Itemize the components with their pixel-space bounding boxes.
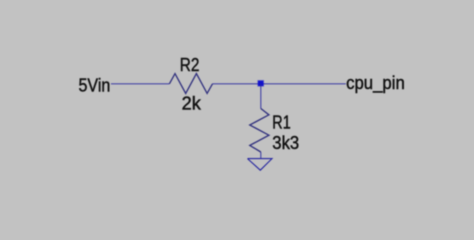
- svg-text:R1: R1: [272, 113, 290, 133]
- svg-text:3k3: 3k3: [272, 133, 299, 153]
- svg-text:5Vin: 5Vin: [79, 76, 111, 96]
- node junction: [258, 81, 263, 86]
- wire: junction down to R1: [260, 84, 262, 109]
- svg-text:2k: 2k: [182, 93, 202, 113]
- svg-text:cpu_pin: cpu_pin: [346, 73, 405, 94]
- resistor R2: [169, 74, 212, 94]
- wire: 5Vin to R2 left lead: [111, 83, 169, 85]
- resistor R1: [250, 109, 269, 153]
- svg-text:R2: R2: [180, 55, 200, 75]
- ground: [248, 159, 273, 171]
- wire: R2 right lead to cpu_pin: [213, 83, 346, 85]
- wire: R1 bottom lead: [260, 152, 262, 159]
